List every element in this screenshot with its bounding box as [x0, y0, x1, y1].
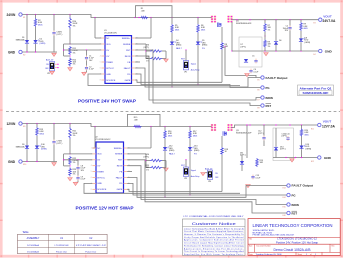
resistor R6 (OPT): [144, 45, 162, 53]
capacitor C2A 150uF bulk: [283, 20, 292, 51]
svg-text:NC: NC: [106, 38, 110, 40]
wire VDD row 12V: [70, 153, 92, 155]
node VOUT 12V terminal E11: [311, 120, 335, 131]
node IMON terminal E15: [283, 203, 299, 209]
svg-text:Tuesday, February 05, 2008: Tuesday, February 05, 2008: [256, 253, 283, 256]
svg-text:JP4: JP4: [208, 181, 211, 183]
wire 12V output rail: [239, 124, 317, 126]
svg-text:JP2: JP2: [47, 73, 50, 75]
svg-text:3: 3: [91, 159, 92, 161]
wire SENSE+ to rail: [135, 18, 151, 39]
svg-text:FAULT Output: FAULT Output: [292, 185, 314, 188]
svg-text:(OPT.): (OPT.): [57, 143, 63, 145]
resistor R1 0.008 sense: [141, 8, 149, 19]
LED D12 red FAULT: [163, 139, 176, 198]
svg-text:(RED): (RED): [169, 150, 175, 152]
svg-text:LTC4218CGN: LTC4218CGN: [104, 32, 117, 34]
svg-text:Table: Table: [22, 230, 29, 234]
wire IMON to terminal 12V: [127, 166, 287, 205]
LED D4 red FAULT: [170, 33, 183, 88]
capacitor C3 (OPT): [52, 15, 62, 53]
svg-text:0805: 0805: [305, 134, 309, 136]
wire output ground return: [232, 50, 318, 51]
wire RST to terminal 12V: [127, 160, 287, 213]
resistor R21 200R: [69, 124, 78, 154]
resistor R9B 10K feedback: [264, 40, 272, 52]
capacitor C7 (OPT): [52, 124, 62, 162]
svg-text:4: 4: [91, 165, 92, 167]
wire gate node tap: [222, 46, 256, 77]
svg-text:1%: 1%: [268, 29, 271, 31]
svg-text:E6: E6: [258, 89, 260, 91]
svg-text:8: 8: [91, 189, 92, 191]
diode D14 (OPT) TVS: [274, 128, 286, 158]
resistor R2 6.8K: [34, 15, 43, 28]
svg-text:SOURCE: SOURCE: [106, 80, 116, 82]
diode D6 TVS output: [274, 20, 282, 51]
ground symbol 12V monitor: [162, 161, 168, 172]
node assembly table: [18, 230, 108, 254]
svg-text:IMON: IMON: [125, 56, 131, 58]
capacitor C13 0.1uF: [251, 175, 261, 180]
ground symbol at C3: [52, 53, 57, 56]
LED D2 green: [33, 27, 45, 52]
resistor R18 1K gate: [221, 136, 228, 192]
node VOUT terminal E3: [314, 14, 336, 24]
wire IMON to terminal: [135, 56, 261, 100]
svg-text:1%: 1%: [73, 52, 76, 54]
svg-text:(RED): (RED): [194, 150, 200, 152]
ground symbol below C9: [73, 180, 78, 185]
resistor R17 6.8K pg LED: [189, 127, 198, 140]
svg-text:Auto-Retry: Auto-Retry: [191, 68, 200, 71]
svg-text:1%: 1%: [146, 169, 149, 171]
ground symbol at C13: [246, 185, 251, 188]
svg-text:1%: 1%: [73, 174, 76, 176]
svg-text:VOUT: VOUT: [323, 120, 332, 124]
svg-text:INTVCC: INTVCC: [106, 68, 114, 70]
wire UV/OV divider bus: [63, 44, 101, 56]
svg-text:1%: 1%: [73, 162, 76, 164]
svg-text:24VIN: 24VIN: [7, 13, 17, 17]
capacitor C12 (OPT): [258, 125, 266, 146]
svg-text:POSITIVE 12V HOT SWAP: POSITIVE 12V HOT SWAP: [76, 206, 134, 211]
svg-text:D6: D6: [279, 40, 281, 42]
svg-text:FAULT: FAULT: [116, 176, 123, 179]
svg-text:E12: E12: [311, 161, 314, 163]
wire VDD row: [70, 43, 101, 45]
svg-text:5: 5: [100, 62, 101, 64]
node FAULT output terminal E13: [283, 184, 314, 190]
svg-text:JP3: JP3: [184, 178, 187, 180]
capacitor C4 0.1uF: [249, 69, 259, 74]
svg-text:RST: RST: [266, 104, 272, 108]
node GND 12V output terminal E12: [311, 156, 332, 163]
svg-text:(OPT.): (OPT.): [240, 155, 246, 157]
svg-text:LTC4218CGN-12: LTC4218CGN-12: [95, 139, 111, 141]
node title block: [248, 219, 340, 256]
wire SENSE to monitor network: [135, 44, 147, 59]
svg-text:Auto-Retry: Auto-Retry: [191, 175, 200, 178]
svg-text:PG: PG: [292, 193, 296, 197]
svg-text:Performance Or Reliability. Co: Performance Or Reliability. Contact Line…: [184, 244, 244, 247]
capacitor C2 0.1uF: [85, 60, 95, 70]
svg-text:0.1uF: 0.1uF: [89, 69, 95, 71]
svg-text:0.1uF: 0.1uF: [254, 71, 260, 73]
diode D7 (OPT) in option box: [239, 37, 262, 67]
svg-text:E10: E10: [23, 164, 26, 166]
svg-text:JP1: JP1: [184, 72, 187, 74]
svg-text:0805: 0805: [304, 28, 308, 30]
svg-text:E15: E15: [283, 206, 286, 208]
wire kelvin sense loop 12V: [128, 114, 161, 126]
ground symbol on output return: [264, 53, 269, 56]
node junction dots 12V output rail: [249, 124, 302, 125]
svg-text:GND: GND: [97, 183, 102, 185]
svg-text:E1: E1: [23, 17, 25, 19]
svg-text:TIMER: TIMER: [97, 171, 104, 173]
wire GND pin return 12V: [84, 183, 240, 193]
LED D13 red PG: [188, 139, 200, 196]
jumper JP1 RST: [181, 49, 199, 73]
svg-text:(OPT.): (OPT.): [144, 47, 150, 49]
node output GND terminal E4: [314, 49, 333, 56]
svg-text:(GRN): (GRN): [40, 43, 46, 45]
svg-text:(GRN): (GRN): [305, 42, 311, 44]
node junction dots on output rail: [236, 19, 301, 20]
node PG terminal E6: [258, 86, 270, 92]
ground symbol on 12V ground return: [290, 159, 295, 162]
svg-text:VDD: VDD: [97, 154, 102, 156]
svg-text:6: 6: [91, 177, 92, 179]
wire 12V output ground: [273, 157, 317, 158]
svg-text:E4: E4: [314, 54, 316, 56]
svg-text:Demo Circuit 1052A-A/B: Demo Circuit 1052A-A/B: [274, 248, 312, 252]
svg-text:GND: GND: [325, 50, 333, 54]
svg-text:E5: E5: [258, 79, 260, 81]
svg-text:E16: E16: [283, 215, 286, 217]
svg-text:(OPT.): (OPT.): [280, 149, 286, 151]
wire clamp branch vertical: [246, 124, 247, 158]
svg-text:6: 6: [100, 68, 101, 70]
resistor R12 10K: [69, 58, 77, 67]
svg-text:2: 2: [91, 153, 92, 155]
svg-text:LTC4218CGN: LTC4218CGN: [55, 245, 69, 247]
diode D9 SMBJ12A TVS: [16, 124, 30, 162]
svg-text:FAULT: FAULT: [176, 47, 183, 50]
svg-text:GATE: GATE: [125, 79, 131, 82]
svg-text:GND: GND: [106, 74, 111, 76]
svg-text:POSITIVE 24V HOT SWAP: POSITIVE 24V HOT SWAP: [78, 98, 136, 103]
svg-text:3: 3: [100, 50, 101, 52]
svg-text:(RED): (RED): [176, 45, 182, 47]
svg-text:SUM110N06-02F: SUM110N06-02F: [303, 91, 330, 95]
svg-text:8: 8: [100, 80, 101, 82]
note customer notice box: [183, 219, 246, 256]
svg-text:FAULT Output: FAULT Output: [266, 76, 288, 80]
svg-text:FAULT: FAULT: [124, 67, 131, 70]
svg-text:DC1052A-A: DC1052A-A: [27, 244, 39, 247]
svg-text:GND: GND: [8, 51, 16, 55]
resistor R25 20R: [146, 165, 162, 171]
svg-text:1: 1: [100, 38, 101, 40]
svg-text:PG: PG: [266, 86, 270, 90]
svg-text:Rev: Rev: [332, 245, 335, 247]
svg-text:E7: E7: [258, 99, 260, 101]
svg-text:GND: GND: [8, 160, 16, 164]
wire NC pin to rail: [95, 18, 101, 39]
svg-text:Future Use: Future Use: [56, 250, 68, 253]
note LTC confidential line: [184, 215, 245, 218]
ground symbol at C4: [245, 74, 250, 77]
svg-text:0805: 0805: [175, 29, 179, 31]
jumper JP3 RST: [181, 159, 199, 180]
diode D1 SMBJ24A TVS: [16, 15, 30, 53]
node RST terminal E8: [258, 104, 272, 110]
capacitor C10 C11 (OPT): [282, 133, 290, 141]
svg-text:0.1uF: 0.1uF: [256, 177, 262, 179]
wire NC pin to 12V rail: [92, 127, 95, 149]
svg-text:(GRN): (GRN): [41, 149, 47, 151]
wire kelvin sense loop: [136, 6, 173, 18]
resistor R24 (OPT): [144, 154, 162, 162]
svg-text:Positive 24V, Positive 12V Hot: Positive 24V, Positive 12V Hot Swap: [276, 240, 319, 244]
svg-text:IMON: IMON: [292, 203, 299, 207]
svg-text:NC: NC: [97, 148, 101, 150]
svg-text:Customer Notice: Customer Notice: [192, 221, 237, 226]
resistor R20 6.8K vout LED: [300, 125, 309, 137]
svg-text:E8: E8: [258, 107, 260, 109]
transistor Q1 pass MOSFET: [210, 16, 252, 27]
section separator dashed line: [6, 111, 340, 113]
node GND input terminal E2: [8, 50, 25, 56]
wire 12V input rail: [22, 124, 212, 127]
svg-text:E2: E2: [23, 54, 25, 56]
svg-text:E3: E3: [314, 23, 316, 25]
svg-text:PHONE: (408) 954-8400, FAX: (4: PHONE: (408) 954-8400, FAX: (408) 434-05…: [253, 234, 295, 237]
resistor R11 2.43K: [69, 43, 79, 56]
capacitor C1 0.1uF: [85, 49, 95, 61]
wire 24V output rail: [233, 19, 318, 21]
node FAULT output terminal E5: [258, 76, 288, 82]
svg-text:.008: .008: [134, 119, 138, 121]
resistor R9A 6.8K vout LED: [300, 20, 319, 31]
resistor R7 10K feedback: [264, 20, 272, 40]
capacitor C9 0.1uF: [76, 170, 86, 180]
svg-text:GATE: GATE: [117, 188, 123, 191]
jumper JP2 AUX_5V: [45, 58, 59, 75]
svg-text:SUM110N06-02F: SUM110N06-02F: [236, 132, 252, 134]
svg-text:4: 4: [100, 56, 101, 58]
wire input ground rail: [22, 51, 57, 52]
svg-text:Document Number: Document Number: [257, 244, 272, 247]
svg-text:E13: E13: [283, 187, 286, 189]
resistor R10 200R: [69, 15, 78, 45]
ground symbol at C7: [52, 163, 57, 166]
svg-text:2: 2: [100, 44, 101, 46]
wire FB stub: [135, 61, 140, 63]
svg-text:Title: Title: [249, 237, 252, 240]
wire FAULT to terminal 12V: [127, 178, 287, 198]
svg-text:SOURCE: SOURCE: [97, 189, 107, 191]
svg-text:RST: RST: [126, 50, 131, 52]
svg-text:(RED): (RED): [202, 45, 208, 47]
svg-text:AUX_5V: AUX_5V: [46, 58, 54, 61]
svg-text:5: 5: [91, 171, 92, 173]
svg-text:.008: .008: [141, 11, 145, 13]
svg-text:12VIN: 12VIN: [7, 122, 17, 126]
svg-text:(OPT.): (OPT.): [144, 156, 150, 158]
op-amp U2 LTC4218CGN-12: [91, 136, 130, 193]
LED D8 green vout: [299, 31, 310, 51]
wire GND pin return: [88, 74, 240, 86]
svg-text:(OPT.): (OPT.): [57, 34, 63, 36]
node 24VIN input terminal E1: [7, 13, 26, 19]
svg-text:GND: GND: [324, 156, 332, 160]
node 12VIN input terminal E9: [7, 122, 26, 128]
ground symbol below R12: [68, 68, 73, 71]
svg-text:(OPT.): (OPT.): [241, 46, 247, 48]
svg-text:E11: E11: [311, 129, 314, 131]
svg-text:E9: E9: [23, 126, 25, 128]
svg-text:12V7.0A: 12V7.0A: [322, 124, 335, 128]
svg-text:1%: 1%: [73, 64, 76, 66]
svg-text:FAULT: FAULT: [169, 152, 176, 155]
transistor Q3 pass MOSFET: [211, 124, 252, 136]
wire GATE pin to Q3: [127, 189, 222, 191]
wire 12V divider bus: [63, 154, 92, 166]
svg-text:RST: RST: [292, 211, 298, 215]
svg-text:SMBJ24A: SMBJ24A: [16, 39, 26, 42]
node IMON terminal E7: [258, 96, 273, 102]
svg-text:0805: 0805: [168, 135, 172, 137]
resistor R13 6.8K: [36, 124, 45, 137]
svg-text:LINEAR TECHNOLOGY CORPORATION: LINEAR TECHNOLOGY CORPORATION: [253, 223, 333, 228]
svg-text:Signal: Signal: [191, 63, 197, 65]
svg-text:1%: 1%: [73, 135, 76, 137]
resistor R22 2.43K: [69, 153, 79, 166]
svg-text:SMBJ12A: SMBJ12A: [16, 146, 26, 149]
svg-text:Alternate Part For Q1: Alternate Part For Q1: [300, 86, 333, 90]
jumper JP4 AUX_5V: [201, 167, 220, 183]
resistor R16 6.8K fault LED: [164, 127, 173, 140]
svg-text:SENSE: SENSE: [123, 44, 131, 46]
node junction dots 12V input rail: [26, 123, 190, 127]
wire PG to terminal: [135, 74, 261, 88]
svg-text:IMON: IMON: [117, 166, 123, 168]
resistor R15 0.008 sense: [134, 117, 142, 128]
resistor R19 10R: [256, 158, 264, 167]
capacitor C8B option box: [252, 56, 258, 64]
node GND 12V terminal E10: [8, 160, 26, 166]
wire SENSE+ to 12V rail: [127, 127, 151, 149]
resistor R8 10R gate: [221, 27, 229, 82]
capacitor C8 0.1uF: [76, 159, 86, 172]
svg-text:SENSE+: SENSE+: [122, 38, 131, 40]
wire 24V input rail: [22, 15, 210, 18]
svg-text:24V7.0A: 24V7.0A: [323, 19, 336, 23]
node RST terminal E16: [283, 211, 298, 217]
svg-text:ASSEMBLY: ASSEMBLY: [27, 237, 40, 240]
resistor R6A 6.8K pg LED: [197, 18, 206, 34]
svg-text:Signal: Signal: [191, 170, 197, 172]
svg-text:TIMER: TIMER: [106, 62, 113, 64]
svg-text:VOUT: VOUT: [323, 14, 332, 18]
resistor R4 20R: [146, 56, 162, 62]
svg-text:SUM110N06-02F: SUM110N06-02F: [236, 23, 252, 25]
wire source kelvin vertical: [231, 22, 232, 52]
diode D11 (OPT) gate clamp: [240, 152, 246, 171]
svg-text:0805: 0805: [201, 29, 205, 31]
node PG terminal E14: [283, 193, 296, 199]
node junction dots on input rail: [26, 14, 198, 18]
ground symbol at monitor network: [162, 51, 168, 62]
svg-text:PG: PG: [127, 74, 130, 76]
LED D10 green: [35, 136, 47, 162]
svg-text:RST: RST: [118, 160, 123, 162]
svg-text:C5: C5: [252, 56, 254, 58]
svg-text:DC1052A-B: DC1052A-B: [27, 250, 39, 253]
svg-text:IMON: IMON: [266, 96, 273, 100]
svg-text:LTC4218CGN, LTC4218CGNC-12: LTC4218CGN, LTC4218CGNC-12: [277, 237, 317, 241]
svg-text:E14: E14: [283, 197, 286, 199]
ground symbol below C2: [82, 70, 87, 75]
wire 12V ground rail: [22, 161, 57, 162]
note alternate part box: [298, 85, 334, 96]
svg-text:PG: PG: [119, 183, 122, 185]
svg-text:LTC4218CGNC-12: LTC4218CGNC-12: [76, 245, 107, 247]
svg-text:Sheet: Sheet: [298, 253, 303, 256]
svg-text:1%: 1%: [73, 25, 76, 27]
wire SENSE 12V monitor: [127, 154, 147, 168]
svg-text:INTVCC: INTVCC: [97, 177, 105, 179]
svg-text:Circuit That Meets Customer-Su: Circuit That Meets Customer-Supplied Spe…: [184, 230, 244, 233]
svg-text:(OPT.): (OPT.): [258, 133, 264, 135]
wire PG to terminal 12V: [127, 183, 287, 195]
LED D16 green vout: [299, 137, 311, 158]
svg-text:1%: 1%: [268, 46, 271, 48]
wire GATE pin to Q1: [135, 80, 222, 82]
svg-text:Future Use: Future Use: [85, 250, 97, 253]
resistor R23 10K: [69, 167, 77, 176]
svg-text:0805: 0805: [193, 135, 197, 137]
svg-text:LTC CONFIDENTIAL- FOR CUSTOMER: LTC CONFIDENTIAL- FOR CUSTOMER USE ONLY: [184, 215, 245, 218]
svg-text:Date:: Date:: [249, 253, 254, 256]
svg-text:(OPT.): (OPT.): [282, 136, 288, 138]
LED D5 red PG: [196, 33, 208, 85]
svg-text:VDD: VDD: [106, 44, 111, 46]
svg-text:Size: Size: [249, 245, 252, 247]
svg-text:SENSE: SENSE: [115, 154, 123, 156]
svg-text:SENSE+: SENSE+: [114, 148, 123, 150]
resistor R5 6.8K fault LED: [171, 18, 180, 34]
wire FB stub 12V: [127, 171, 132, 173]
wire RST to terminal: [135, 50, 261, 106]
ground symbol below R23: [68, 178, 73, 181]
svg-text:1: 1: [91, 148, 92, 150]
svg-text:0.1uF: 0.1uF: [81, 179, 87, 181]
svg-text:(GRN): (GRN): [306, 148, 312, 150]
wire FAULT to terminal: [135, 68, 261, 87]
op-amp U1 LTC4218CGN: [100, 30, 138, 83]
note option box 12V: [273, 128, 294, 161]
